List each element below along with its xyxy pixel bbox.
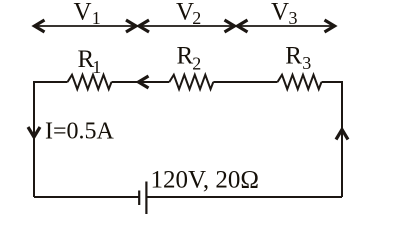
arrowhead current on top wire (pointing left) xyxy=(139,76,149,88)
wire top-right corner and right side xyxy=(322,82,343,197)
arrowhead V3 left xyxy=(238,20,248,32)
arrowhead V2 left xyxy=(139,20,149,32)
battery negative plate (short) xyxy=(138,191,140,206)
svg-text:I=0.5A: I=0.5A xyxy=(45,118,115,144)
arrowhead V2 right xyxy=(225,20,235,32)
svg-text:V: V xyxy=(271,0,289,26)
wire top-left segment xyxy=(34,82,68,197)
arrowhead V1 right xyxy=(126,20,136,32)
svg-text:120V, 20Ω: 120V, 20Ω xyxy=(151,166,259,193)
resistor R2 xyxy=(169,75,213,89)
arrowhead current on right wire (pointing up) xyxy=(336,130,348,140)
svg-text:3: 3 xyxy=(289,8,298,28)
wire bottom left segment xyxy=(34,196,139,198)
battery positive plate (long) xyxy=(145,182,147,215)
svg-text:R: R xyxy=(177,43,194,70)
wire between R1 and R2 xyxy=(112,81,170,83)
arrowhead V3 right xyxy=(325,20,335,32)
node V3 span line xyxy=(237,25,335,27)
resistor R3 xyxy=(278,75,322,89)
wire between R2 and R3 xyxy=(213,81,277,83)
wire bottom right segment xyxy=(146,196,342,198)
svg-text:V: V xyxy=(74,0,92,26)
svg-text:3: 3 xyxy=(302,53,311,73)
svg-text:1: 1 xyxy=(92,8,101,28)
svg-text:2: 2 xyxy=(192,8,201,28)
arrowhead current on left wire (pointing down) xyxy=(28,127,40,137)
resistor R1 xyxy=(68,75,112,89)
node V1 span line xyxy=(34,25,137,27)
arrowhead V1 left xyxy=(35,20,45,32)
svg-text:2: 2 xyxy=(192,53,201,73)
svg-text:R: R xyxy=(285,43,302,70)
node V2 span line xyxy=(139,25,236,27)
